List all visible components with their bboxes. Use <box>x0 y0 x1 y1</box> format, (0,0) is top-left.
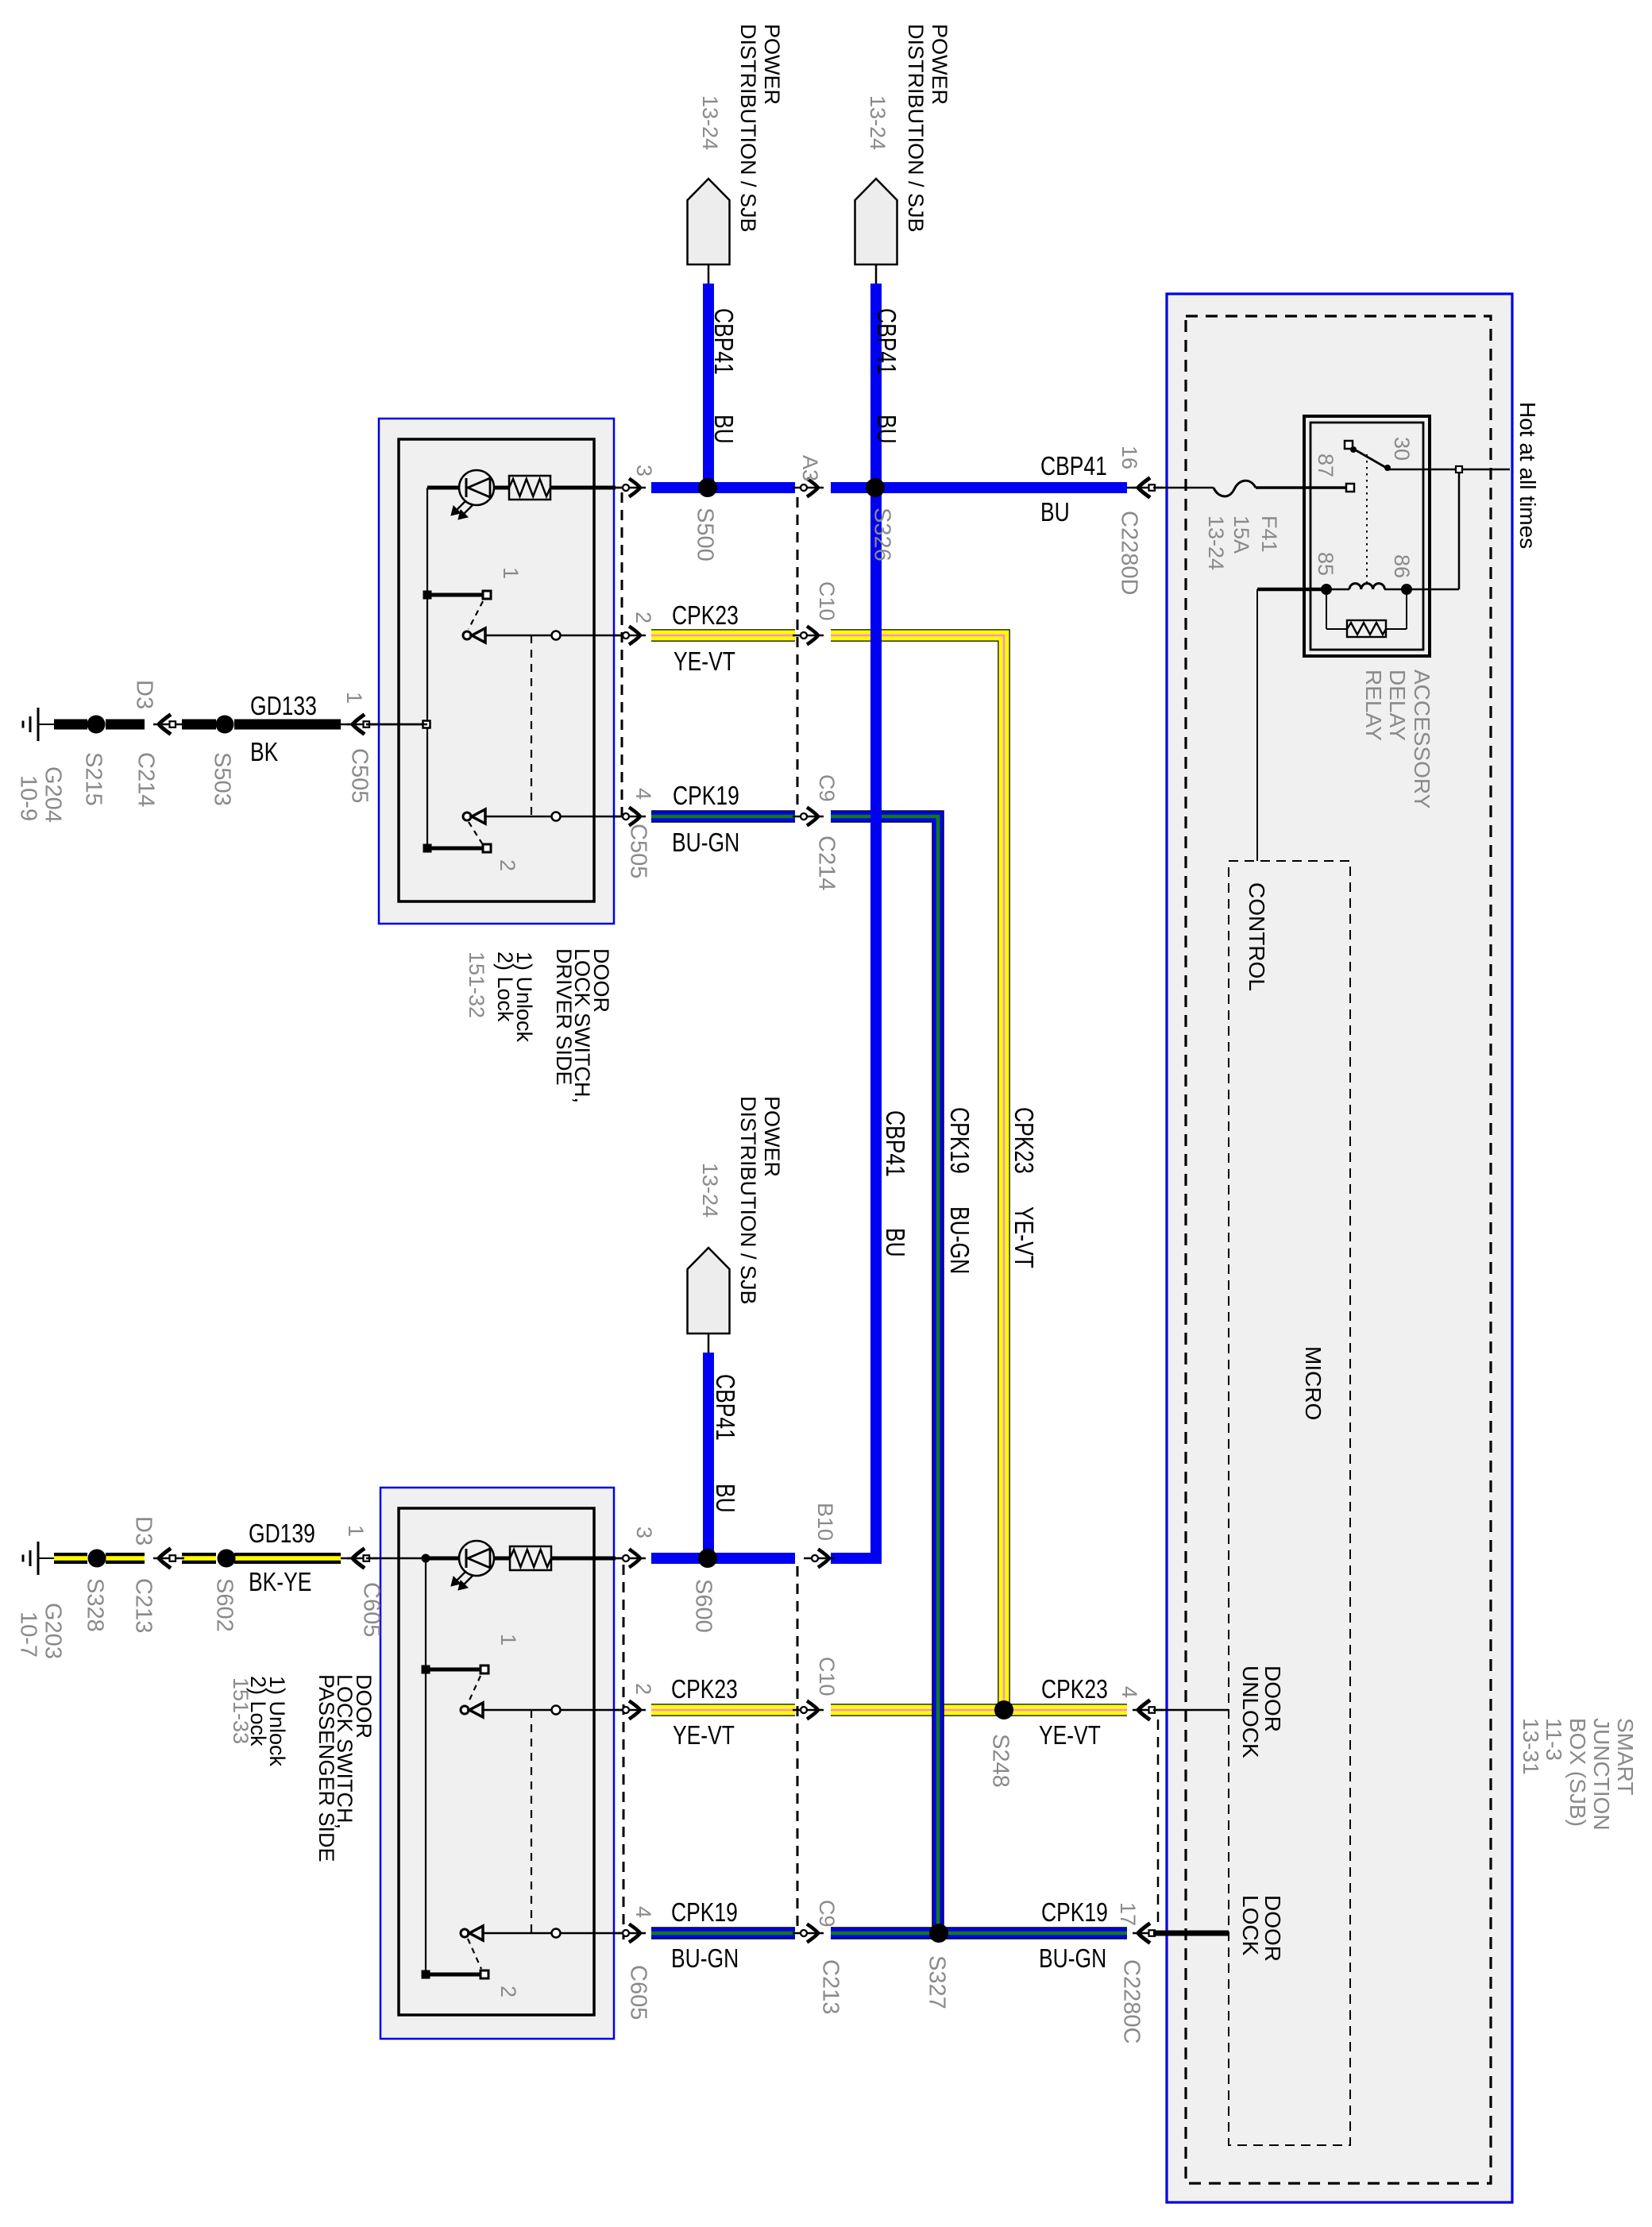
passenger switch bus <box>425 1558 427 1974</box>
splice S215 <box>87 716 106 734</box>
svg-text:BU-GN: BU-GN <box>671 1944 739 1974</box>
splice S328 <box>88 1550 106 1568</box>
ground G203 <box>37 1542 40 1575</box>
splice S503 <box>216 716 234 734</box>
wire CBP41 BU stub from middle pentagon <box>703 1353 714 1558</box>
passenger pin 4 arrow <box>629 1924 640 1943</box>
driver switch contact 2 <box>469 822 482 843</box>
connector C214 arrow (pin D3) <box>159 715 171 735</box>
wire CBP41 BU vertical from left pentagon <box>703 284 714 488</box>
connector A3 arrow <box>807 479 818 497</box>
splice S500 <box>698 478 717 497</box>
passenger switch contact 1 <box>426 1668 480 1672</box>
splice S326 <box>866 478 885 497</box>
svg-text:CONTROL: CONTROL <box>1245 882 1269 991</box>
relay switch arm <box>1345 441 1353 449</box>
driver switch wiper pole B (pin 4) <box>463 812 471 820</box>
svg-text:C2280D: C2280D <box>1116 511 1141 595</box>
svg-text:ACCESSORY: ACCESSORY <box>1410 670 1434 809</box>
svg-text:2) Lock: 2) Lock <box>493 951 517 1022</box>
passenger pin 3 arrow <box>629 1550 640 1568</box>
ground G204 <box>37 708 40 741</box>
svg-text:11-3: 11-3 <box>1542 1718 1566 1761</box>
svg-text:DISTRIBUTION / SJB: DISTRIBUTION / SJB <box>736 1096 760 1305</box>
svg-text:C10: C10 <box>815 581 839 621</box>
svg-text:LOCK: LOCK <box>1238 1895 1263 1956</box>
svg-text:C605: C605 <box>625 1965 650 2020</box>
wire CPK23 YE-VT driver row <box>651 629 795 642</box>
svg-text:DELAY: DELAY <box>1385 670 1410 741</box>
svg-text:SMART: SMART <box>1613 1718 1638 1796</box>
wire CPK19 BU-GN corner and vertical <box>831 816 938 1933</box>
svg-text:D3: D3 <box>131 680 156 709</box>
svg-text:POWER: POWER <box>928 24 951 105</box>
passenger switch wiper pole A (pin 2) <box>461 1706 469 1714</box>
svg-text:1: 1 <box>342 692 366 704</box>
svg-text:DOOR: DOOR <box>1260 1895 1285 1962</box>
svg-text:YE-VT: YE-VT <box>674 647 735 677</box>
svg-text:RELAY: RELAY <box>1361 670 1386 741</box>
connector dashed line C505 (driver) <box>621 492 623 822</box>
svg-text:2: 2 <box>496 1986 520 1997</box>
svg-text:CPK23: CPK23 <box>672 601 739 631</box>
splice S248 <box>994 1700 1013 1719</box>
wire CBP41 BU vertical from right pentagon down to B10 row <box>870 284 882 488</box>
svg-text:13-24: 13-24 <box>698 95 722 150</box>
svg-text:S326: S326 <box>869 508 894 562</box>
wire GD133 BK segments <box>54 720 87 730</box>
connector B10 arrow <box>818 1550 829 1568</box>
connector C213 arrow (pin D3) <box>159 1549 171 1569</box>
accessory delay relay box <box>1304 416 1430 656</box>
wire CPK23 YE-VT corner and vertical <box>831 635 1004 1710</box>
svg-text:MICRO: MICRO <box>1301 1346 1326 1420</box>
svg-text:1: 1 <box>344 1525 368 1537</box>
off-page connector POWER DISTRIBUTION / SJB (right) <box>855 179 897 264</box>
svg-text:C505: C505 <box>346 748 372 803</box>
svg-text:BK: BK <box>250 738 278 767</box>
splice S327 <box>929 1924 948 1943</box>
CONTROL box (dashed) <box>1229 861 1350 2145</box>
connector C2280B arrow (pin 4, DOOR UNLOCK) <box>1138 1700 1150 1720</box>
wire CPK23 YE-VT passenger row <box>651 1704 795 1716</box>
wire CBP41 BU B10 row <box>831 1553 882 1564</box>
relay wire to CONTROL <box>1256 589 1258 861</box>
connector C2280D arrow (pin 16) <box>1127 487 1138 489</box>
splice S602 <box>218 1550 236 1568</box>
relay pin 87 contact <box>1346 484 1354 492</box>
svg-text:F41: F41 <box>1257 515 1281 553</box>
connector dashed line C214/C10-C9 (driver) <box>797 497 799 810</box>
connector C605 arrow (pin 1, passenger) <box>341 1557 353 1560</box>
svg-text:13-31: 13-31 <box>1519 1718 1543 1775</box>
passenger door lock switch box <box>380 1488 614 2039</box>
svg-text:BK-YE: BK-YE <box>249 1568 311 1597</box>
connector C10 arrow (driver) <box>807 627 818 645</box>
svg-text:POWER: POWER <box>760 24 784 105</box>
relay resistor <box>1326 595 1327 629</box>
driver pin1 wire <box>366 724 427 726</box>
svg-text:BU-GN: BU-GN <box>944 1206 974 1274</box>
svg-text:85: 85 <box>1314 552 1337 576</box>
svg-text:CPK19: CPK19 <box>671 1898 738 1928</box>
relay pin 30 wire (Hot at all times) <box>1389 469 1510 471</box>
svg-text:1: 1 <box>496 1634 520 1646</box>
svg-text:GD133: GD133 <box>250 692 317 721</box>
passenger switch mechanical link <box>531 1710 532 1933</box>
svg-text:S503: S503 <box>209 752 234 806</box>
svg-text:UNLOCK: UNLOCK <box>1238 1665 1263 1758</box>
svg-text:S602: S602 <box>211 1578 237 1632</box>
svg-text:JUNCTION: JUNCTION <box>1589 1718 1614 1831</box>
driver switch mechanical link <box>531 635 532 816</box>
splice S600 <box>698 1549 717 1568</box>
svg-text:13-24: 13-24 <box>1204 515 1228 570</box>
svg-text:BU: BU <box>880 1228 909 1257</box>
connector C10 arrow (passenger) <box>807 1701 818 1719</box>
svg-text:C505: C505 <box>625 824 650 878</box>
svg-text:87: 87 <box>1314 454 1337 477</box>
wire CBP41 BU top row <box>651 482 795 493</box>
connector C2280C arrow (pin 17, DOOR LOCK) <box>1138 1924 1150 1943</box>
svg-text:CBP41: CBP41 <box>710 1374 739 1441</box>
driver pin 4 arrow <box>629 808 640 826</box>
svg-text:10-7: 10-7 <box>15 1611 41 1658</box>
svg-text:30: 30 <box>1390 437 1414 461</box>
passenger pin 2 arrow <box>629 1701 640 1719</box>
svg-text:YE-VT: YE-VT <box>1039 1721 1101 1750</box>
svg-text:C9: C9 <box>815 1900 839 1928</box>
svg-text:CBP41: CBP41 <box>1040 452 1107 481</box>
driver pin 2 arrow <box>629 627 640 645</box>
svg-text:C2280C: C2280C <box>1118 1959 1144 2044</box>
svg-text:BU: BU <box>871 415 901 444</box>
svg-text:GD139: GD139 <box>249 1519 315 1549</box>
svg-text:C213: C213 <box>130 1578 156 1633</box>
svg-text:A3: A3 <box>798 455 822 481</box>
svg-text:D3: D3 <box>130 1516 156 1546</box>
svg-text:DISTRIBUTION / SJB: DISTRIBUTION / SJB <box>736 24 760 233</box>
svg-text:13-24: 13-24 <box>866 95 890 150</box>
wire CPK19 BU-GN passenger row <box>651 1927 795 1939</box>
fuse F41 15A 13-24 <box>1214 481 1256 496</box>
svg-text:CBP41: CBP41 <box>871 308 901 375</box>
driver switch wiper pole A (pin 2) <box>463 631 471 639</box>
passenger switch contact 2 <box>468 1939 481 1969</box>
svg-text:B10: B10 <box>813 1503 837 1541</box>
svg-text:S215: S215 <box>80 752 106 806</box>
svg-text:S500: S500 <box>692 508 717 562</box>
driver switch bus <box>427 488 428 848</box>
connector dashed line C213/C10-C9 (passenger) <box>797 1566 799 1927</box>
svg-text:C10: C10 <box>815 1657 839 1696</box>
svg-text:86: 86 <box>1390 554 1414 578</box>
svg-text:4: 4 <box>631 1906 655 1918</box>
svg-text:15A: 15A <box>1229 515 1253 554</box>
connector dashed line C605 (passenger) <box>623 1565 625 1939</box>
svg-text:POWER: POWER <box>760 1096 784 1177</box>
svg-text:151-33: 151-33 <box>229 1677 253 1744</box>
svg-text:DOOR: DOOR <box>1260 1665 1285 1732</box>
connector C9 arrow (driver) <box>807 808 818 826</box>
svg-text:CBP41: CBP41 <box>708 308 738 375</box>
svg-text:DISTRIBUTION / SJB: DISTRIBUTION / SJB <box>904 24 928 233</box>
off-page connector POWER DISTRIBUTION / SJB (left) <box>688 179 730 264</box>
svg-text:16: 16 <box>1117 446 1141 469</box>
svg-text:S600: S600 <box>690 1579 716 1633</box>
svg-text:BOX (SJB): BOX (SJB) <box>1565 1718 1590 1827</box>
svg-text:C9: C9 <box>815 774 839 802</box>
svg-text:3: 3 <box>632 1526 656 1538</box>
svg-text:BU: BU <box>710 1484 739 1513</box>
svg-text:2: 2 <box>631 612 655 623</box>
driver switch contact 1 <box>427 593 482 597</box>
passenger switch LED <box>426 1557 459 1561</box>
svg-text:YE-VT: YE-VT <box>1009 1206 1038 1268</box>
svg-text:4: 4 <box>631 788 655 800</box>
driver door lock switch box <box>379 419 614 924</box>
connector C9 arrow (passenger) <box>807 1924 818 1943</box>
svg-text:3: 3 <box>632 465 656 477</box>
driver switch resistor <box>509 476 550 500</box>
svg-text:BU-GN: BU-GN <box>672 828 739 858</box>
svg-text:YE-VT: YE-VT <box>673 1721 735 1750</box>
relay mechanical dotted link <box>1366 454 1368 585</box>
svg-text:CPK19: CPK19 <box>944 1107 974 1174</box>
svg-text:4: 4 <box>1117 1686 1141 1698</box>
svg-text:BU: BU <box>1040 498 1070 527</box>
SJB box (SMART JUNCTION BOX) <box>1167 294 1512 2202</box>
svg-text:S248: S248 <box>987 1734 1013 1788</box>
svg-text:C214: C214 <box>133 752 158 807</box>
svg-text:Hot at all times: Hot at all times <box>1515 402 1540 549</box>
svg-text:C605: C605 <box>358 1582 384 1637</box>
svg-text:151-32: 151-32 <box>465 951 488 1018</box>
svg-text:S327: S327 <box>924 1955 949 2009</box>
svg-text:G203: G203 <box>40 1603 65 1659</box>
relay coil pins 85/86 <box>1257 588 1326 592</box>
passenger switch wiper pole B (pin 4) <box>461 1929 469 1937</box>
connector dashed line C2280 (SJB) <box>1157 1719 1160 1926</box>
svg-text:CPK23: CPK23 <box>671 1675 738 1704</box>
driver pin 3 arrow <box>629 479 640 497</box>
off-page connector POWER DISTRIBUTION / SJB (middle) <box>688 1248 730 1333</box>
svg-text:CPK23: CPK23 <box>1041 1675 1108 1704</box>
svg-text:10-9: 10-9 <box>15 775 41 821</box>
svg-text:CPK19: CPK19 <box>1041 1898 1108 1928</box>
svg-text:17: 17 <box>1116 1902 1140 1926</box>
svg-text:C214: C214 <box>813 836 839 890</box>
svg-text:13-24: 13-24 <box>698 1163 722 1218</box>
wire CPK19 BU-GN driver row <box>651 810 795 823</box>
svg-text:DRIVER SIDE: DRIVER SIDE <box>552 948 576 1086</box>
svg-text:G204: G204 <box>40 766 65 823</box>
svg-text:C213: C213 <box>817 1959 843 2014</box>
svg-text:PASSENGER SIDE: PASSENGER SIDE <box>315 1674 338 1862</box>
connector C505 arrow (pin 1) <box>341 724 353 726</box>
svg-text:2: 2 <box>496 859 519 871</box>
svg-text:S328: S328 <box>82 1578 107 1632</box>
svg-text:2: 2 <box>631 1683 655 1695</box>
passenger switch resistor <box>510 1546 551 1570</box>
svg-text:CBP41: CBP41 <box>880 1110 909 1177</box>
driver switch LED <box>427 486 459 490</box>
svg-text:BU: BU <box>708 415 738 444</box>
svg-text:CPK23: CPK23 <box>1009 1107 1038 1174</box>
SJB inner dashed boundary <box>1186 316 1491 2183</box>
svg-text:CPK19: CPK19 <box>673 782 739 811</box>
wire GD139 BK-YE segments <box>54 1553 87 1564</box>
svg-text:1: 1 <box>499 567 523 579</box>
svg-text:BU-GN: BU-GN <box>1039 1944 1106 1974</box>
